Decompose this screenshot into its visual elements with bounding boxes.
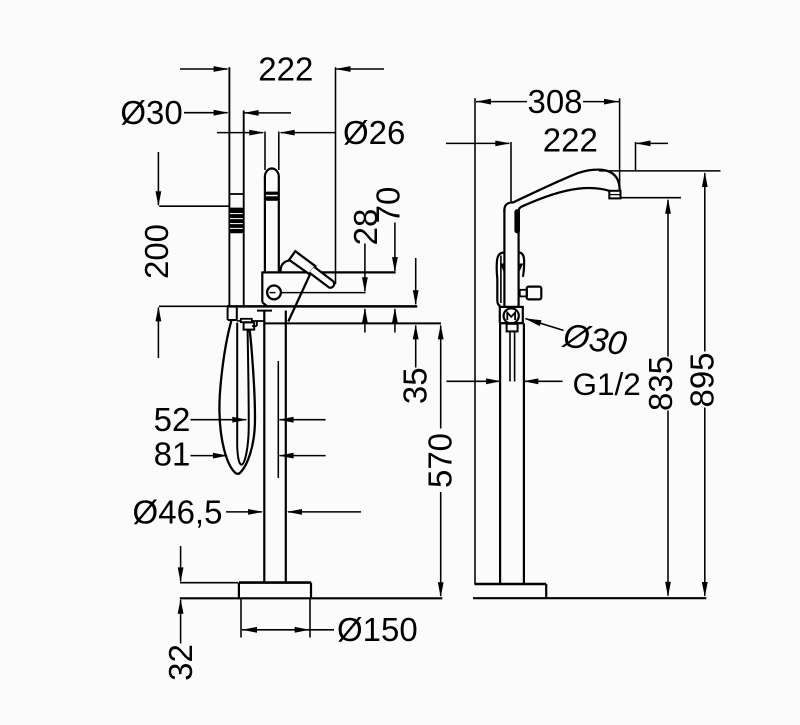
joystick handle diagonal (into body) bbox=[288, 273, 310, 321]
leader Ø30 (right view, italic) bbox=[526, 319, 564, 331]
svg-text:308: 308 bbox=[527, 83, 582, 120]
small ledge line under bracket bbox=[257, 310, 272, 312]
hose connection nub below deck bbox=[507, 324, 518, 332]
hand shower handle left edge / extension line bbox=[228, 67, 230, 307]
bracket left edge bbox=[261, 272, 263, 303]
right view base plate bbox=[475, 583, 547, 585]
dim Ø26 bbox=[217, 132, 263, 134]
base plate bbox=[239, 581, 311, 584]
dim 895 bbox=[599, 170, 721, 172]
floor line bbox=[180, 597, 443, 599]
right view deck escutcheon bbox=[500, 306, 523, 308]
svg-text:Ø150: Ø150 bbox=[337, 611, 418, 648]
G1/2 pipe bbox=[509, 332, 511, 382]
hand shower side view bbox=[497, 253, 504, 306]
nozzle bar bbox=[241, 319, 252, 322]
joystick stem bbox=[309, 267, 334, 288]
mixer knob side view bbox=[527, 287, 542, 300]
deck 200-extension line left part bbox=[159, 305, 227, 307]
shower tip below deck bbox=[227, 308, 229, 320]
svg-text:Ø26: Ø26 bbox=[343, 114, 405, 151]
dim 835 bbox=[622, 197, 682, 199]
right view column bbox=[499, 323, 501, 584]
svg-text:G1/2: G1/2 bbox=[573, 366, 641, 402]
svg-text:835: 835 bbox=[642, 356, 679, 411]
svg-text:Ø46,5: Ø46,5 bbox=[133, 494, 223, 531]
svg-text:570: 570 bbox=[422, 433, 459, 488]
joystick ball arc bbox=[281, 260, 290, 271]
svg-text:52: 52 bbox=[154, 401, 191, 438]
hose loop inner curve bbox=[237, 323, 249, 465]
28 extension line from screw to right bbox=[281, 292, 365, 294]
svg-text:895: 895 bbox=[684, 352, 721, 407]
dim 28 (rotated) bbox=[364, 244, 366, 292]
dim 32 (rotated) bbox=[180, 546, 182, 581]
svg-text:70: 70 bbox=[370, 187, 407, 224]
dim 222 (top left view) bbox=[180, 68, 228, 70]
column below deck bbox=[263, 311, 265, 583]
hose vertical extension line at right of column bbox=[277, 361, 279, 478]
holder rod dark band bbox=[264, 192, 279, 195]
dim 222 (right view) bbox=[446, 142, 509, 144]
lower deck plate bottom line bbox=[265, 322, 441, 324]
hose loop outer curve bbox=[219, 321, 255, 474]
holder bump right side bbox=[519, 253, 524, 277]
svg-text:222: 222 bbox=[543, 122, 598, 159]
hand shower grip band (black) bbox=[229, 208, 245, 234]
bracket bottom-left chamfer bbox=[262, 302, 267, 306]
holder rod extension lines up to dim bbox=[264, 132, 266, 171]
dim 70 (rotated) bbox=[394, 223, 396, 272]
right view spout outline bbox=[504, 170, 619, 212]
svg-text:35: 35 bbox=[397, 367, 434, 404]
svg-text:200: 200 bbox=[138, 224, 175, 279]
right view riser tube bbox=[503, 210, 505, 306]
holder rod dome top bbox=[265, 169, 279, 177]
dim Ø150 bbox=[242, 629, 334, 631]
joystick grip bbox=[289, 251, 315, 274]
dim 35 (rotated) bbox=[415, 258, 417, 304]
deck top plate line bbox=[227, 305, 417, 308]
right view: 308 extension / base plate left edge bbox=[474, 98, 476, 584]
hand shower top cap bbox=[229, 193, 245, 195]
svg-text:81: 81 bbox=[154, 436, 191, 473]
svg-text:Ø30: Ø30 bbox=[120, 94, 182, 131]
deck screw circle with M bbox=[504, 308, 519, 323]
holder rod sides bbox=[264, 176, 266, 272]
right view floor line bbox=[473, 597, 706, 599]
spout aerator tip bbox=[609, 191, 620, 199]
hand shower handle right edge / extension line bbox=[243, 111, 245, 308]
dim 308 bbox=[476, 99, 491, 105]
dim 570 (rotated) bbox=[438, 324, 444, 339]
dim G1/2 bbox=[447, 380, 501, 382]
hose nipple bbox=[244, 322, 255, 329]
svg-text:222: 222 bbox=[258, 51, 313, 88]
svg-text:32: 32 bbox=[162, 644, 199, 681]
dim 200 (rotated) bbox=[157, 152, 159, 205]
200 top extension line (holder level) bbox=[159, 205, 228, 207]
step lines right of nipple bbox=[252, 320, 265, 322]
bracket screw circle bbox=[267, 286, 281, 300]
bracket top edge (extends right as 70 ext line) bbox=[262, 271, 395, 273]
lever seen edge-on (black bar) bbox=[514, 209, 520, 233]
